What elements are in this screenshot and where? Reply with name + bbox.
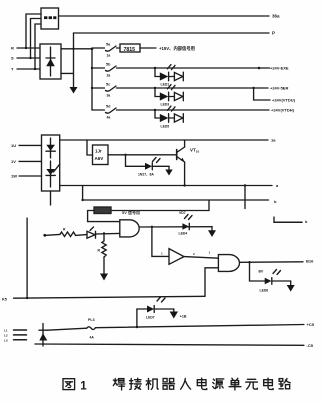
svg-text:1N27、8A: 1N27、8A	[138, 173, 154, 177]
junction K5	[26, 297, 28, 299]
wire riser to rail b	[208, 200, 210, 211]
svg-text:5c: 5c	[106, 83, 110, 87]
wire row4 main	[117, 109, 270, 111]
svg-text:36a: 36a	[272, 14, 280, 19]
caption char 机	[146, 378, 158, 389]
junction T tap	[34, 68, 36, 70]
junction pulldown	[103, 232, 105, 234]
wire phase R	[17, 47, 40, 49]
wire drop from rail a	[244, 186, 246, 209]
wire G2 output	[240, 261, 304, 264]
diode VD4 arrow	[169, 92, 184, 101]
svg-text:+24V(VTDH): +24V(VTDH)	[271, 108, 295, 113]
svg-text:3a: 3a	[107, 94, 111, 98]
ground arrow mid	[165, 166, 172, 175]
junction row2 drop	[154, 67, 156, 69]
caption char 电	[264, 378, 273, 389]
rectifier bridge box U1	[40, 44, 61, 79]
svg-text:7815: 7815	[124, 47, 136, 53]
node input terminal	[43, 234, 46, 237]
wire fork upper	[254, 87, 268, 89]
wire riser to gate input	[88, 211, 120, 222]
resistor R12 pulldown	[98, 234, 107, 258]
wire phase V	[19, 160, 42, 162]
junction rail a tap	[244, 184, 246, 186]
junction bus top	[91, 48, 94, 51]
resistor R11	[60, 228, 76, 237]
junction row3 drop	[154, 87, 156, 89]
svg-text:PL3: PL3	[88, 318, 95, 322]
wire LED branch mid	[126, 155, 146, 167]
svg-text:5a: 5a	[106, 43, 111, 47]
wire tap S to filter	[31, 19, 42, 59]
svg-text:LED5: LED5	[161, 125, 170, 129]
junction row4 drop	[154, 109, 156, 111]
svg-text:LED3: LED3	[161, 103, 170, 107]
svg-text:+1B: +1B	[180, 315, 187, 319]
caption char 电	[197, 378, 206, 389]
wire rail b	[83, 199, 269, 201]
wire rail 1a	[60, 139, 268, 141]
wire LED to ground	[152, 165, 169, 167]
svg-text:R: R	[63, 228, 66, 232]
junction rail b corner	[81, 199, 83, 201]
svg-text:R: R	[11, 46, 14, 51]
rectifier box U2	[42, 135, 60, 191]
svg-text:a: a	[276, 183, 279, 188]
wire row2 main	[117, 67, 270, 69]
svg-text:2: 2	[193, 252, 195, 256]
LED VD3	[160, 85, 175, 101]
svg-text:VD7: VD7	[179, 211, 186, 215]
caption char 器	[163, 379, 175, 390]
wire K5 riser	[26, 218, 28, 298]
svg-text:1: 1	[209, 251, 211, 255]
LED VD10	[179, 211, 192, 230]
wire phase U	[19, 144, 42, 146]
wire rail a	[60, 185, 272, 187]
svg-text:BV: BV	[259, 270, 264, 274]
svg-text:T: T	[11, 67, 14, 72]
svg-text:R: R	[98, 249, 101, 253]
svg-text:A6V: A6V	[95, 156, 104, 161]
svg-text:1V: 1V	[11, 159, 16, 164]
svg-text:5d: 5d	[106, 105, 111, 109]
LED VD13	[147, 297, 165, 313]
wire row2 left	[92, 67, 105, 69]
wire vertical net P riser	[73, 33, 75, 87]
svg-text:1: 1	[80, 381, 87, 393]
wire row3 main	[117, 87, 254, 89]
terminal bars	[14, 330, 27, 340]
transistor VT10	[177, 140, 185, 162]
wire net 36a	[59, 15, 270, 17]
regulator 7815	[120, 44, 140, 53]
caption char 接	[130, 378, 142, 389]
filter box FL1	[41, 8, 59, 29]
wire buffer to G2	[184, 257, 218, 259]
svg-text:LED7: LED7	[146, 316, 155, 320]
wire bridge minus stub	[61, 72, 74, 74]
LED VD7	[145, 158, 160, 170]
diode VD6 arrow	[169, 114, 184, 123]
svg-text:K5: K5	[2, 298, 7, 302]
junction bridge plus	[72, 48, 74, 50]
wire phase T	[17, 68, 40, 70]
caption char 路	[279, 379, 290, 389]
wire psu line1 left	[48, 328, 87, 330]
component box K4	[94, 207, 111, 214]
svg-text:5b: 5b	[106, 63, 111, 67]
wire phase W	[19, 175, 42, 177]
wire G2 bottom input	[205, 268, 218, 297]
caption char 单	[229, 378, 241, 390]
svg-text:+24V-EXE: +24V-EXE	[270, 66, 289, 71]
wire diode to gate	[96, 232, 120, 235]
diode VD12	[39, 324, 47, 346]
regulator box U3	[93, 145, 109, 165]
wire fork lower	[254, 88, 270, 100]
svg-text:b: b	[305, 220, 308, 224]
diode VD2 arrow	[169, 72, 184, 81]
svg-text:P: P	[272, 31, 275, 36]
switch S3	[106, 83, 117, 98]
ground arrow bottom left	[100, 274, 108, 281]
junction G2 out	[248, 261, 250, 263]
junction G1 out	[151, 226, 153, 228]
wire phase S	[17, 57, 40, 59]
wire resistor to diode	[76, 234, 87, 237]
svg-text:S: S	[11, 56, 14, 61]
svg-text:L1: L1	[4, 329, 8, 333]
wire drop to regulator	[87, 140, 93, 155]
svg-text:+24V(VTDU): +24V(VTDU)	[272, 98, 296, 103]
wire LED7 stub	[137, 308, 147, 310]
junction row3 fork	[252, 87, 254, 89]
svg-text:5V 信号用: 5V 信号用	[122, 209, 140, 215]
svg-text:1a: 1a	[107, 54, 111, 58]
wire row3 left	[92, 87, 105, 89]
diode VD9	[87, 227, 96, 238]
svg-text:-C5: -C5	[307, 343, 314, 348]
ground arrow below bridge	[70, 87, 78, 94]
wire gate feedback top	[88, 210, 209, 212]
caption char 元	[246, 379, 258, 389]
LED VD1	[160, 65, 175, 81]
caption figure number 图	[63, 379, 75, 390]
svg-text:L3: L3	[4, 338, 8, 342]
ground arrow after LED6	[272, 281, 295, 292]
wire row1 left	[92, 47, 105, 49]
junction emitter rail	[183, 184, 185, 186]
junction S tap	[29, 57, 31, 59]
ground arrow LED7	[154, 309, 178, 319]
wire row1 to 7815	[117, 47, 121, 49]
wire row4 left	[92, 109, 105, 111]
junction LED tap	[124, 154, 126, 156]
svg-text:2a: 2a	[107, 74, 111, 78]
svg-text:+C5: +C5	[307, 322, 315, 327]
caption char 人	[181, 378, 191, 389]
junction row2 end	[258, 67, 261, 70]
wire row3 LED branch	[155, 88, 160, 97]
svg-text:4a: 4a	[107, 116, 111, 120]
ground arrow after LED4	[208, 227, 216, 238]
wire bridge plus output	[61, 48, 92, 50]
svg-text:1a: 1a	[271, 138, 276, 143]
wire terminal to resistor	[46, 233, 60, 236]
wire rail b riser	[82, 186, 84, 201]
svg-text:+24V-5ER: +24V-5ER	[270, 86, 288, 91]
wire box2 bottom stub	[50, 191, 52, 205]
wire row1 output	[140, 47, 156, 49]
svg-text:B16: B16	[306, 259, 314, 264]
wire K5 feedback	[14, 296, 205, 298]
switch S2	[106, 63, 117, 78]
svg-text:+15V、内部信号用: +15V、内部信号用	[159, 45, 195, 52]
junction bus row3	[91, 87, 93, 89]
caption char 焊	[113, 379, 125, 390]
AND gate G1	[120, 220, 139, 237]
buffer U4	[169, 249, 184, 265]
wire net P	[74, 32, 270, 34]
fuse PL3	[87, 318, 96, 339]
switch S4	[106, 105, 117, 120]
LED VD11	[259, 270, 281, 285]
wire +24V bus	[91, 49, 93, 110]
switch S1	[106, 43, 117, 58]
svg-text:LED1: LED1	[161, 83, 170, 87]
wire LED6 branch	[250, 262, 265, 281]
LED VD5	[160, 106, 175, 122]
wire psu line1 right	[96, 325, 304, 328]
svg-text:1W: 1W	[11, 174, 17, 179]
wire row4 LED branch	[155, 110, 160, 118]
caption char 源	[213, 379, 224, 389]
wire pulldown to ground	[103, 257, 105, 274]
wire G1 out down to buffer	[152, 227, 169, 257]
wire tap T to filter	[35, 24, 41, 69]
wire regulator to base	[108, 154, 176, 156]
svg-text:LED4: LED4	[179, 232, 188, 236]
svg-text:1U: 1U	[11, 143, 16, 148]
svg-text:LED6: LED6	[260, 289, 269, 293]
AND gate G2	[218, 255, 239, 272]
svg-text:4A: 4A	[90, 335, 95, 339]
wire G1 output	[139, 226, 212, 228]
wire LED7 riser	[136, 309, 138, 327]
wire row2 LED branch	[155, 68, 160, 77]
junction bus row2	[91, 67, 93, 69]
svg-text:b: b	[274, 199, 277, 204]
wire psu line2	[35, 344, 304, 345]
connector stub K6	[274, 217, 308, 224]
svg-text:1: 1	[161, 252, 163, 256]
wire emitter to rail a	[184, 162, 186, 186]
svg-text:L2: L2	[4, 334, 8, 338]
junction R tap	[25, 47, 27, 49]
svg-text:1Jr: 1Jr	[95, 149, 102, 154]
junction LED7	[136, 326, 138, 328]
wire tap R to filter	[26, 14, 41, 48]
svg-text:VT10: VT10	[190, 148, 199, 154]
